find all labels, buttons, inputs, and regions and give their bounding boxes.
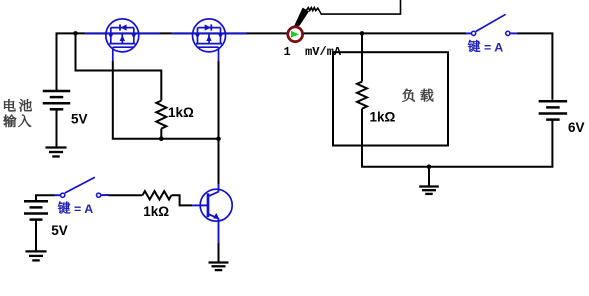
label S2 key = A [468, 40, 503, 54]
wire R3 to Q1 base (jog) [171, 195, 192, 205]
current probe cable squiggle [306, 0, 401, 14]
current probe arrow [291, 31, 299, 38]
current probe XCP1 ring [288, 27, 303, 42]
wire main top rail [57, 33, 467, 91]
label 负载 load [402, 89, 433, 102]
ground GND1 [46, 148, 67, 157]
node A junction dot [73, 31, 78, 36]
battery V2 6V [539, 101, 568, 119]
ground GND2 [209, 263, 229, 271]
transistor Q1 NPN [192, 184, 232, 243]
svg-text:= A: = A [484, 40, 503, 54]
svg-text:1kΩ: 1kΩ [143, 204, 169, 219]
wire ground stem [428, 167, 430, 187]
load box [333, 52, 448, 145]
wire R2 bottom to bottom rail [362, 109, 552, 167]
wire load branch down from node B [361, 33, 363, 81]
wire Q1 emitter to ground [218, 243, 220, 262]
wire gate-drive jog from node A to R1 [76, 33, 162, 100]
svg-text:6V: 6V [568, 120, 585, 135]
wire gate rail M1 gate to Q1 collector line [113, 61, 219, 139]
label 电池输入 battery input [3, 99, 31, 127]
current probe clamp handle [293, 8, 309, 28]
wire V3 top to switch S1 [36, 195, 55, 201]
wire M2 gate down to Q1 collector [218, 61, 220, 184]
svg-text:= A: = A [74, 202, 93, 216]
wire S1 to R3 [109, 194, 143, 196]
wire switch S2 to top-right corner [518, 33, 553, 99]
resistor R1 1k vertical [156, 101, 166, 129]
transistor M2 PMOS [172, 32, 247, 34]
battery V1 5V [43, 91, 71, 109]
label S1 key = A [58, 202, 93, 216]
node ground junction dot [427, 164, 432, 169]
wire V3 bottom lead [35, 220, 37, 252]
svg-text:5V: 5V [51, 223, 68, 238]
wire R1 bottom to gate rail [160, 129, 162, 139]
switch S1 key A [55, 177, 109, 197]
resistor R2 1k in load [357, 82, 367, 109]
svg-text:1kΩ: 1kΩ [168, 105, 194, 120]
transistor M1 PMOS (mirrored) [85, 32, 160, 34]
switch S2 key A [466, 14, 518, 35]
ground GND3 [26, 251, 47, 260]
svg-text:1kΩ: 1kΩ [370, 110, 396, 125]
node gate-rail/collector junction dot [216, 136, 221, 141]
node B junction dot [360, 31, 365, 36]
wire V1 bottom lead [56, 109, 58, 147]
battery V3 5V [24, 201, 48, 219]
ground GND4 [419, 187, 439, 194]
resistor R3 1k horizontal [143, 191, 172, 199]
node R1-bottom junction dot [159, 136, 164, 141]
svg-text:5V: 5V [71, 112, 88, 127]
